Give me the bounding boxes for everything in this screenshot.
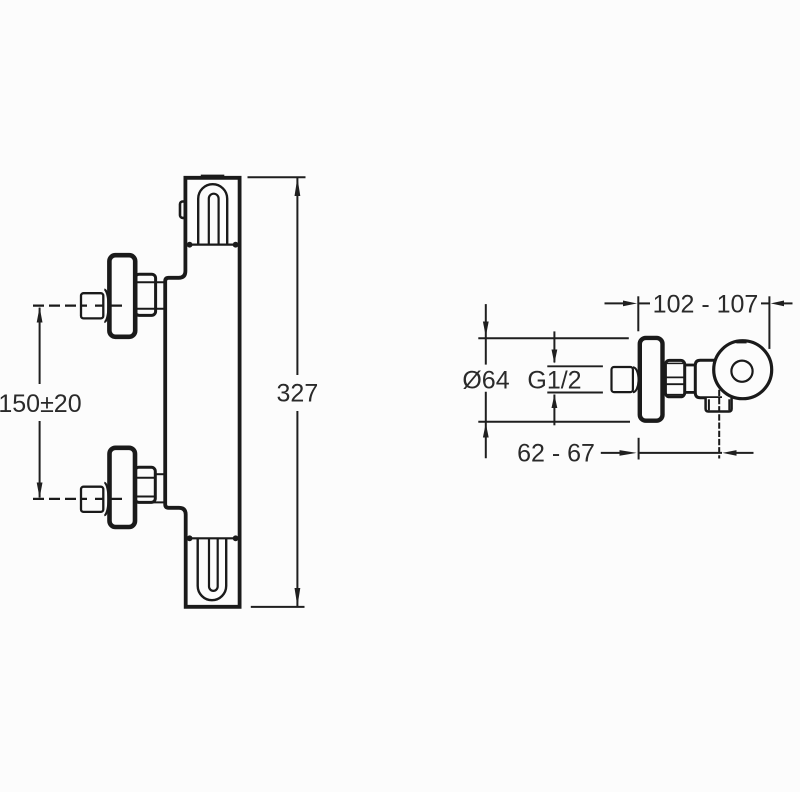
- dim 327 extension line top: [248, 176, 306, 178]
- upper supply nut: [81, 293, 103, 318]
- arrowhead 150±20 up: [37, 307, 43, 323]
- arrowhead 62-67 right: [722, 450, 736, 456]
- upper hex facet / collar line bottom: [137, 308, 165, 310]
- lower wall flange: [110, 448, 136, 527]
- side valve body: [695, 360, 722, 398]
- side hex facet line upper: [666, 376, 684, 378]
- side hex facet line lower: [666, 383, 684, 385]
- lower divider left dot: [187, 535, 193, 541]
- dim 62-67 span line: [639, 452, 722, 454]
- dim 102-107 right tail: [782, 302, 793, 304]
- arrowhead 327 up: [295, 178, 301, 196]
- lower divider right dot: [233, 535, 239, 541]
- body top lip: [201, 175, 225, 178]
- upper divider right dot: [233, 242, 239, 248]
- dim 327 line lower segment: [296, 411, 298, 606]
- bottom cartridge outer keyhole: [198, 538, 227, 600]
- mixer body outline (front view): [165, 178, 239, 607]
- arrowhead G1/2 top: [552, 350, 558, 364]
- dim Ø64 bottom extension line: [478, 421, 630, 423]
- lower divider line: [189, 537, 237, 539]
- dim 150±20 line upper segment: [39, 308, 41, 384]
- dim 102-107 left tail: [605, 302, 626, 304]
- thermostat head circle: [714, 341, 772, 399]
- outlet dashed centerline: [718, 390, 720, 459]
- dim Ø64 vertical lower: [485, 392, 487, 459]
- dim G1/2 bottom extension line: [547, 392, 603, 394]
- lower hex nut: [135, 467, 155, 502]
- lower hex facet / collar line top: [137, 477, 155, 479]
- top cartridge inner slot: [209, 194, 219, 245]
- arrowhead Ø64 bottom: [483, 423, 489, 437]
- dim 102-107 left stub: [638, 302, 650, 304]
- upper divider line: [189, 244, 237, 246]
- side wall flange: [640, 338, 663, 421]
- upper hex nut: [135, 274, 155, 315]
- side hex chamfer line top: [667, 362, 683, 364]
- side neck bottom line: [685, 391, 696, 394]
- dim 327 line upper segment: [296, 178, 298, 375]
- upper hex facet / collar line top: [137, 281, 165, 283]
- outlet facet line right: [728, 399, 730, 410]
- bottom cartridge inner slot: [209, 538, 218, 591]
- arrowhead 150±20 down: [37, 483, 43, 499]
- arrowhead 62-67 left: [620, 450, 637, 456]
- lower collar line bottom: [137, 501, 165, 503]
- upper wall flange: [109, 255, 135, 337]
- side hex nut: [665, 360, 684, 396]
- side hex chamfer line bottom: [667, 394, 683, 396]
- lower hex facet line 2: [137, 496, 155, 498]
- dim 62-67 left tail: [601, 452, 620, 454]
- dim 62-67 left extension line: [638, 438, 640, 460]
- dim 327 extension line bottom: [251, 606, 305, 608]
- dim G1/2 vertical lower: [553, 395, 555, 426]
- svg-text:327: 327: [277, 380, 319, 408]
- arrowhead Ø64 top: [483, 322, 489, 337]
- dim 62-67 right tail: [736, 452, 754, 454]
- dim 102-107 right stub: [761, 302, 769, 304]
- arrowhead G1/2 bottom: [552, 395, 558, 409]
- dim Ø64 vertical upper: [485, 304, 487, 365]
- upper union dome arc: [104, 290, 108, 322]
- lower port centerline: [33, 498, 123, 500]
- outlet nut below: [706, 398, 732, 412]
- arrowhead 327 down: [295, 588, 301, 606]
- outlet facet line left: [708, 399, 710, 410]
- svg-text:102 - 107: 102 - 107: [653, 290, 759, 318]
- lower supply nut: [81, 487, 103, 512]
- arrowhead 102-107 right: [771, 301, 784, 307]
- upper divider left dot: [187, 242, 193, 248]
- dim 102-107 right extension line: [768, 296, 770, 349]
- side neck top line: [685, 364, 696, 367]
- svg-text:150±20: 150±20: [0, 390, 82, 418]
- top cartridge outer keyhole: [198, 184, 227, 244]
- lower union dome arc: [104, 483, 108, 515]
- dim 102-107 left extension line: [637, 296, 639, 331]
- svg-text:G1/2: G1/2: [527, 366, 581, 394]
- dim G1/2 vertical upper: [553, 331, 555, 362]
- dim G1/2 top extension line: [547, 365, 603, 367]
- arrowhead 102-107 left: [623, 301, 637, 307]
- head inner circle: [731, 361, 752, 382]
- dim Ø64 top extension line: [478, 337, 629, 339]
- side union dome arc: [633, 367, 639, 392]
- side supply nut: [612, 367, 633, 392]
- mixer body tab (left clip): [180, 202, 186, 218]
- upper port centerline: [33, 305, 123, 307]
- lower collar line top: [155, 473, 166, 475]
- dim 150±20 line lower segment: [39, 421, 41, 498]
- head chamfer line: [736, 342, 746, 344]
- svg-text:62 - 67: 62 - 67: [517, 439, 595, 467]
- svg-text:Ø64: Ø64: [462, 366, 509, 394]
